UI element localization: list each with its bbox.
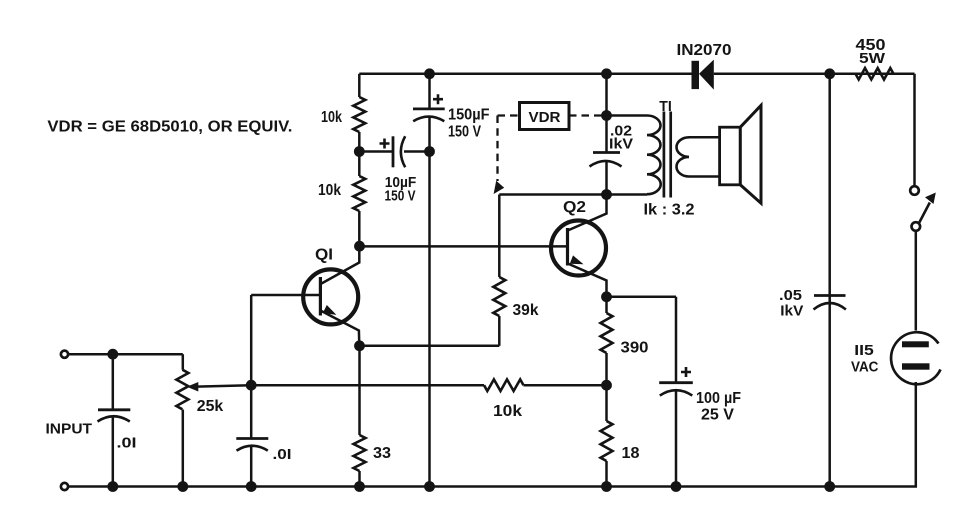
svg-text:IkV: IkV [780,302,803,319]
wire 150uF down long vertical [428,117,431,487]
arrow dashed VDR to node [494,181,505,194]
node junction bias divider [354,146,365,157]
transformer T1 primary winding [647,116,661,195]
wire T1 secondary top to speaker [689,136,720,139]
node junction bottom at 18 [601,481,612,492]
svg-text:150 V: 150 V [448,124,482,141]
wire dashed VDR left [498,114,520,116]
node junction input cap [107,349,118,360]
wire 100uF to bottom rail [675,391,678,487]
wire 33 top [358,346,361,435]
resistor 450 5W [856,68,894,79]
transformer T1 core [664,112,671,198]
node junction bottom at .01 second [246,481,257,492]
wire 10uF right plate to 150uF line [404,150,430,153]
capacitor .01 input top plate [98,408,130,411]
capacitor .01 (second) bottom curved plate [237,446,268,451]
transistor Q1 emitter lead [320,311,359,346]
wire 39k top vertical [498,195,501,278]
wire .02 cap to Q2 collector node [605,162,608,195]
svg-text:10k: 10k [321,109,342,126]
transistor Q2 emitter arrow [570,255,584,264]
wire Q2 emitter to 390 [605,297,608,313]
node junction Q1 emitter [354,340,365,351]
capacitor .05 bottom curved plate [814,303,846,310]
svg-text:100 µF: 100 µF [696,390,741,407]
wire top rail to VDR node [605,74,608,116]
resistor R 10k lower [353,176,365,211]
plug prong upper [902,341,929,347]
capacitor 10uF left plate [392,136,395,167]
node junction top rail at .05 cap [824,68,835,79]
node junction top rail at 150uF [424,68,435,79]
switch lever arrowhead [925,193,936,205]
wire 33 bottom [358,471,361,487]
wire dashed VDR down [496,116,498,182]
svg-text:390: 390 [621,340,649,357]
svg-text:.0I: .0I [273,446,292,463]
resistor 33 [354,435,366,471]
transistor Q2 body circle [551,221,606,276]
svg-text:VDR = GE 68D5010, OR EQUIV.: VDR = GE 68D5010, OR EQUIV. [47,119,292,136]
wire node to 10uF left plate [359,150,393,153]
terminal input top [61,351,68,358]
plug prong lower [902,363,930,369]
svg-text:150 V: 150 V [385,188,416,205]
wire .05 cap to bottom rail [828,304,831,487]
wire input top to pot [68,353,183,356]
capacitor .05 top plate [814,294,846,297]
capacitor .02 top plate [593,151,620,154]
node junction bottom at pot [177,481,188,492]
svg-text:IN2070: IN2070 [677,42,732,59]
resistor 390 [601,313,613,353]
wire base net to 10k feedback [251,384,484,387]
wire VDR node to T1 primary top [607,114,648,117]
wire top rail left segment [359,73,692,76]
switch contact upper [910,186,919,195]
speaker horn cone [740,105,761,203]
diode 1N2070 anode triangle [699,60,714,90]
wire VDR node to .02 cap [605,116,608,153]
transformer T1 secondary winding [677,137,690,176]
diode 1N2070 cathode bar [692,61,700,89]
speaker driver rectangle [720,127,741,185]
capacitor 10uF right curved plate [401,136,405,167]
wire Q1 emitter to 39k corner [360,345,500,348]
potentiometer 25k wiper arrow [187,382,199,392]
resistor 39k [493,277,505,316]
wire .01 input to bottom rail [112,417,115,487]
wire Q1 base vertical down [250,295,253,439]
wire from top rail corner down to 10k upper [358,74,361,97]
resistor R 10k upper [353,97,365,132]
wire 10k upper to node [358,132,361,152]
node junction bottom at input cap [107,481,118,492]
resistor 18 [601,421,613,461]
svg-text:10k: 10k [493,403,522,420]
wire Q1 collector node to Q2 base [360,245,568,248]
svg-text:TI: TI [659,98,672,115]
svg-text:IkV: IkV [609,136,633,153]
wire node to 10k lower [358,152,361,177]
potentiometer 25k bottom wire [182,410,185,487]
svg-text:INPUT: INPUT [46,421,93,438]
wire plug bottom to bottom rail [830,382,916,487]
capacitor 100uF top plate [659,381,693,384]
potentiometer 25k zigzag [176,370,188,410]
node junction bottom at 150uF line [424,481,435,492]
svg-text:39k: 39k [513,302,539,319]
node junction 10uF right [424,146,435,157]
wire right rail middle [915,231,918,331]
wire top rail to 150uF top plate [428,74,431,109]
wire 10k feedback to 390/18 node [524,384,607,387]
node junction base/pot wiper net [246,380,257,391]
wire top rail to .05 cap [828,74,831,303]
capacitor 150uF top plate [413,108,445,111]
node junction Q1 collector [354,241,365,252]
plug 115 VAC body circle [891,332,940,384]
svg-text:II5: II5 [854,343,874,359]
wire 10k lower to Q1 collector node [358,211,361,246]
capacitor .01 (second) top plate [236,437,268,440]
node junction VDR net [601,110,612,121]
svg-text:25k: 25k [197,398,224,415]
potentiometer 25k wiper wire [197,385,252,386]
wire node to 18 [605,385,608,421]
transistor Q2 emitter lead [568,264,607,297]
wire T1 secondary bottom to speaker [689,175,720,178]
wire dashed VDR right [569,114,607,116]
capacitor 100uF bottom curved plate [660,390,693,395]
svg-text:VAC: VAC [851,360,879,376]
wire 390 to node [605,353,608,385]
capacitor .01 input bottom curved plate [98,416,130,421]
plus sign of 10uF [380,139,390,149]
svg-text:QI: QI [315,247,333,264]
plus sign of 150uF [433,94,443,104]
svg-text:Q2: Q2 [563,199,586,216]
node junction bottom at .05 [824,481,835,492]
node junction Q2 collector net [601,189,612,200]
node junction bottom at 33 [354,481,365,492]
svg-text:.0I: .0I [117,435,137,452]
svg-text:18: 18 [622,445,640,462]
transistor Q1 emitter arrow [323,305,337,315]
transistor Q2 base bar [566,228,569,266]
capacitor .02 bottom curved plate [590,161,622,167]
resistor 10k feedback [484,379,524,391]
wire top rail right segment [714,73,915,76]
wire input node to .01 top [112,354,115,410]
switch contact lower [912,222,921,231]
node junction 390/18/10k [601,380,612,391]
wire corner down to 100uF [675,297,678,383]
node junction top rail at Q2 collector chain [601,68,612,79]
transistor Q1 base bar [319,277,322,316]
svg-text:5W: 5W [859,51,885,67]
wire .01 second to bottom rail [250,447,253,487]
svg-text:25 V: 25 V [701,407,735,424]
transistor Q1 body circle [303,269,358,324]
plus sign of 100uF [681,367,691,377]
switch lever [919,203,930,223]
svg-text:10k: 10k [318,182,341,199]
varistor VDR box [520,103,570,130]
wire Q2 emitter to 100uF corner [607,296,677,299]
svg-text:33: 33 [373,445,391,462]
wire 18 to bottom rail [605,461,608,487]
wire VDR node to Q2 collector node [499,193,606,196]
svg-text:VDR: VDR [529,110,562,126]
node junction Q2 emitter [601,291,612,302]
wire 39k bottom vertical [498,316,501,346]
node junction bottom at 100uF [671,481,682,492]
transistor Q1 collector lead [321,246,360,284]
potentiometer 25k track top wire [182,354,185,370]
svg-text:150µF: 150µF [448,107,490,124]
transistor Q2 collector lead [568,195,607,231]
capacitor 150uF bottom curved plate [413,117,444,122]
svg-text:Ik : 3.2: Ik : 3.2 [644,202,695,219]
wire Q1 base horizontal [251,294,320,297]
terminal input bottom [61,483,68,490]
wire Q2 collector node to T1 primary bottom [607,193,648,196]
wire bottom rail [69,485,830,488]
wire right rail top [913,74,916,186]
